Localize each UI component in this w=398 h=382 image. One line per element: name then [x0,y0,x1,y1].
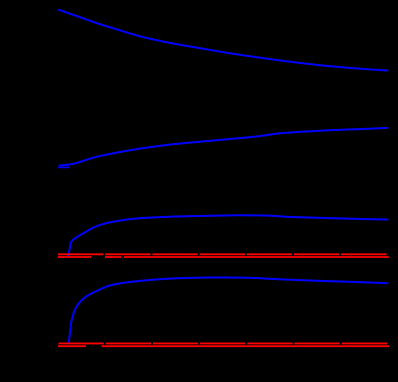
blue curve panel 4 (rising, overshoot) [69,278,388,343]
red dashed line panel 3 upper [58,253,388,255]
blue curve panel 2 (increasing) [60,128,388,165]
red dashed line panel 4 lower [58,345,389,347]
red dashed line panel 4 upper [59,342,389,344]
blue short strand panel 2 start [58,166,69,168]
red dashed line panel 3 lower [58,256,389,258]
blue curve panel 3 (rising, overshoot) [68,215,387,255]
blue curve panel 1 (decreasing) [59,10,388,71]
